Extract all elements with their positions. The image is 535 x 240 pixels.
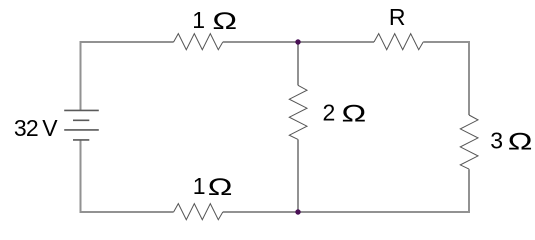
svg-text:32: 32 bbox=[14, 115, 38, 141]
svg-text:Ω: Ω bbox=[342, 100, 367, 127]
label 1 ohm (top) bbox=[192, 7, 237, 35]
battery V1 32 V (two-cell symbol) bbox=[64, 110, 99, 139]
wire: bottom rail left segment and left vertical up to battery bbox=[81, 140, 174, 212]
wire: middle branch vertical (2 ohm down to node B) bbox=[297, 139, 299, 212]
resistor 3 ohm (right), vertical zigzag bbox=[460, 115, 478, 169]
label 2 ohm bbox=[323, 99, 367, 127]
label 1 ohm (bottom) bbox=[193, 173, 233, 201]
label R bbox=[389, 4, 406, 30]
label 32 V bbox=[14, 115, 58, 141]
resistor 1 ohm (top left), horizontal zigzag bbox=[174, 34, 223, 50]
resistor 1 ohm (bottom), horizontal zigzag bbox=[174, 204, 223, 220]
svg-text:3: 3 bbox=[490, 127, 503, 153]
svg-text:Ω: Ω bbox=[212, 8, 237, 35]
node A (junction dot, top middle) bbox=[295, 39, 300, 44]
svg-text:Ω: Ω bbox=[208, 174, 233, 201]
svg-text:1: 1 bbox=[192, 7, 205, 33]
svg-text:1: 1 bbox=[193, 173, 206, 199]
node B (junction dot, bottom middle) bbox=[295, 209, 300, 214]
wire: bottom rail middle segment (node B to bottom 1 ohm) bbox=[223, 211, 298, 213]
wire: right vertical below 3 ohm and bottom rail right segment (to node B) bbox=[298, 169, 469, 212]
svg-text:R: R bbox=[389, 4, 406, 30]
wire: top rail right segment and right vertical down to 3 ohm bbox=[423, 42, 469, 115]
label 3 ohm bbox=[490, 127, 532, 155]
resistor R (top right), horizontal zigzag bbox=[374, 34, 423, 50]
svg-text:2: 2 bbox=[323, 99, 336, 125]
wire: top rail left segment (from top-left corner to R-left 1 ohm lead) bbox=[81, 42, 174, 110]
svg-text:Ω: Ω bbox=[508, 128, 533, 155]
resistor 2 ohm (middle), vertical zigzag bbox=[289, 85, 307, 139]
wire: middle branch vertical (node A down to 2 ohm) bbox=[297, 42, 299, 85]
svg-text:V: V bbox=[42, 115, 58, 141]
wire: top rail middle segment (1 ohm to node A to R) bbox=[223, 41, 374, 43]
